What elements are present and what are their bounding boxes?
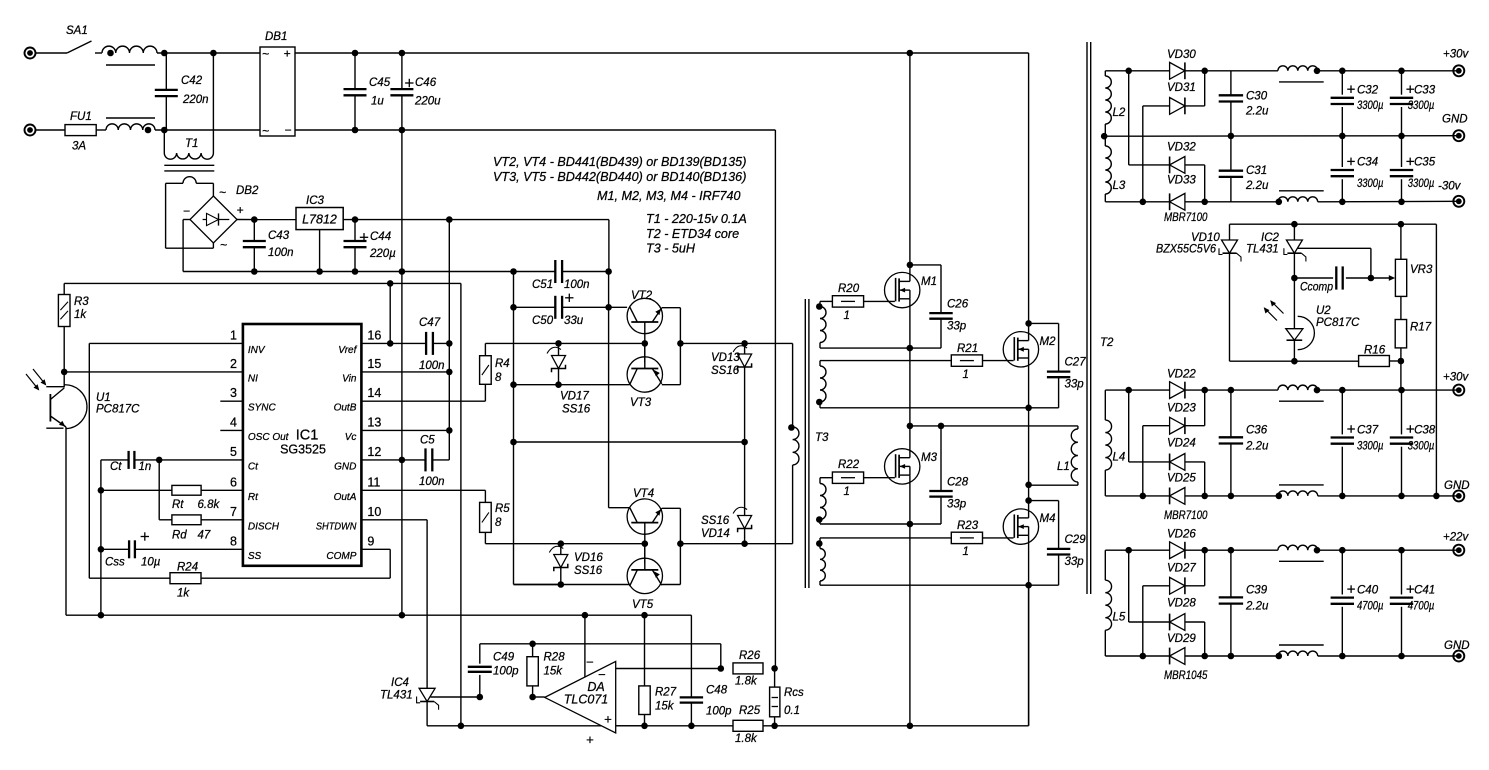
wire GND rail [1318,495,1459,497]
zener VD17 SS16 [558,343,560,384]
diode VD29 [1170,648,1185,665]
capacitor C44 [344,240,367,242]
transformer T3 winding 2 [820,360,951,362]
junction [1201,199,1208,206]
resistor R17 [1400,296,1402,319]
svg-text:9: 9 [367,534,374,548]
regulator IC3 L7812 [296,208,343,230]
wire VT2 emitter [662,307,681,309]
svg-text:C28: C28 [947,477,969,489]
resistor R27 [639,686,650,715]
svg-text:3300µ: 3300µ [1357,441,1384,453]
junction [771,665,778,672]
svg-text:VD30: VD30 [1167,49,1196,61]
wire DC+ rail [295,52,1029,54]
junction [1398,653,1405,660]
wire ground column x402 [401,130,403,272]
svg-text:VD27: VD27 [1167,563,1196,575]
svg-text:C41: C41 [1414,584,1435,596]
resistor R25 [733,720,763,731]
junction [510,268,517,275]
svg-text:+: + [237,203,244,217]
junction emitters [677,340,684,347]
svg-text:5: 5 [230,445,237,459]
svg-text:SS16: SS16 [711,365,740,377]
svg-text:L1: L1 [1057,461,1070,473]
transformer T2 winding L2 [1104,71,1106,76]
junction [98,546,105,553]
junction [907,423,914,430]
junction VT4 base [642,540,649,547]
svg-text:C49: C49 [493,652,515,664]
svg-text:C47: C47 [419,317,441,329]
svg-text:IC4: IC4 [391,677,409,689]
wire [95,52,102,54]
svg-text:+: + [604,712,612,727]
junction [907,345,914,352]
svg-text:C42: C42 [181,75,203,87]
svg-text:C44: C44 [370,231,391,243]
svg-text:220n: 220n [182,94,209,106]
wire [155,129,260,131]
svg-text:GND: GND [334,461,356,472]
junction [399,457,406,464]
svg-text:VT2: VT2 [631,290,653,302]
svg-text:L5: L5 [1113,612,1126,624]
svg-text:GND: GND [1444,640,1470,652]
svg-text:220u: 220u [414,96,441,108]
svg-text:Vc: Vc [345,432,357,443]
ground rail bottom left [66,614,691,616]
transformer T3 winding 3 [820,477,832,479]
svg-text:C31: C31 [1246,165,1267,177]
wire VT2-VT3 base link [644,343,646,362]
resistor R16 [1359,356,1390,367]
svg-text:T2 - ETD34 core: T2 - ETD34 core [646,227,739,241]
junction [1398,133,1405,140]
junction [605,304,612,311]
svg-text:VD32: VD32 [1167,142,1196,154]
junction [1201,387,1208,394]
svg-text:−: − [586,655,594,670]
resistor R24 [170,573,201,584]
transformer T2 winding L5 [1104,550,1106,580]
junction [251,268,258,275]
junction [1398,199,1405,206]
junction [510,439,517,446]
svg-text:TLC071: TLC071 [564,693,608,707]
svg-text:1: 1 [844,486,850,498]
junction [1398,358,1405,365]
wire opamp noninverting input [616,725,645,727]
svg-text:C36: C36 [1246,425,1268,437]
svg-text:GND: GND [1442,114,1468,126]
svg-text:PC817C: PC817C [1316,317,1360,329]
terminal mains N [25,125,36,136]
capacitor C45 [344,88,367,90]
regulator IC4 TL431 [419,688,435,701]
transistor VT4 [627,499,662,534]
wire regulator rail to output GND [1435,224,1437,496]
svg-text:12: 12 [367,445,381,459]
svg-text:VD29: VD29 [1167,633,1196,645]
wire +12V column [448,220,450,431]
terminal mains L [25,48,36,59]
choke output bottom [1278,491,1318,496]
capacitor C46 [390,88,413,90]
terminal -30v [1453,196,1464,207]
wire [36,129,65,131]
optocoupler U2 LED [1286,329,1303,341]
capacitor C42 [155,89,178,91]
capacitor C47 [425,332,427,355]
svg-text:16: 16 [367,328,381,342]
resistor Rd [172,515,201,525]
wire INV feedback column [88,343,90,578]
svg-text:−: − [598,667,606,682]
diode VD22 [1170,382,1185,399]
wire +30v rail [1318,389,1459,391]
wire left bias column [100,460,102,615]
wire [36,52,67,54]
junction [641,723,648,730]
potentiometer VR3 [1400,224,1402,259]
svg-text:T3: T3 [815,432,829,444]
wire winding3 bottom [820,523,941,525]
svg-text:OutB: OutB [334,403,357,414]
polarity dot [1314,387,1321,394]
polarity dot [145,127,152,134]
wire M1 drain [909,53,911,281]
transformer T1 primary [163,130,165,153]
junction [1398,387,1405,394]
junction [1398,547,1405,554]
svg-text:10: 10 [367,505,381,519]
resistor R5 [480,502,492,532]
junction [446,427,453,434]
wire emitter node to T3 primary bottom [680,543,792,545]
diode VD24 [1170,454,1185,471]
junction [1228,387,1235,394]
wire pin14 OutB [361,400,485,402]
wire +12V to VT4 [608,272,610,308]
zener VD16 SS16 [560,544,562,585]
svg-text:M3: M3 [921,452,938,464]
svg-text:PC817C: PC817C [96,404,140,416]
svg-text:VT4: VT4 [633,488,654,500]
wire R4 top to driver base rail [484,343,486,355]
svg-text:R20: R20 [838,283,860,295]
wire R16 node to +30v rail [1400,361,1402,390]
polarity dot [816,399,823,406]
svg-text:3300µ: 3300µ [1408,100,1435,112]
svg-text:R24: R24 [177,562,198,574]
junction [1025,497,1032,504]
junction [1291,275,1298,282]
wire emitter node to T3 primary [680,342,792,344]
LED light arrows [26,374,39,390]
svg-text:3300µ: 3300µ [1408,441,1435,453]
junction [210,50,217,57]
svg-text:15k: 15k [655,701,675,713]
junction [510,304,517,311]
svg-text:8: 8 [495,372,502,384]
svg-text:33p: 33p [1065,556,1085,568]
svg-text:R5: R5 [495,503,510,515]
svg-text:3A: 3A [72,141,86,153]
wire ground column x513 [513,272,515,585]
junction [387,280,394,287]
diode VD25 [1170,488,1185,505]
junction [399,612,406,619]
svg-text:COMP: COMP [326,551,356,562]
svg-text:2.2u: 2.2u [1245,441,1269,453]
switch SA1 [67,41,92,53]
junction [1398,493,1405,500]
svg-text:13: 13 [367,415,381,429]
wire +30v top rail [1105,389,1169,391]
wire regulator top rail [1230,223,1437,225]
polarity dot [816,303,823,310]
resistor R23 [951,532,982,543]
svg-text:4: 4 [230,415,237,429]
choke output top [1278,545,1318,550]
wire GND mid rail [1104,135,1459,138]
wire pin13 Vc [361,429,449,431]
svg-text:C51: C51 [532,279,553,291]
diode VD31 [1170,98,1185,115]
wire [157,52,260,54]
wire -30 rail [1105,201,1169,203]
svg-text:GND: GND [1444,480,1470,492]
junction [741,439,748,446]
junction [1201,653,1208,660]
svg-text:OSC Out: OSC Out [248,432,290,443]
resistor R21 [951,355,982,366]
zener VD10 BZX55C5V6 [1229,224,1231,240]
svg-text:TL431: TL431 [380,690,413,702]
svg-text:SS16: SS16 [562,404,591,416]
svg-text:U1: U1 [96,392,111,404]
capacitor C34 [1341,136,1343,167]
resistor R3 [58,295,70,327]
wire R23 to M4 gate [983,537,1014,539]
svg-text:R28: R28 [544,652,566,664]
diode VD30 [1170,62,1185,79]
wire +22v rail [1318,549,1459,551]
transistor VT5 [627,558,662,593]
diode VD27 [1170,577,1185,594]
junction [446,216,453,223]
wire R5 bottom to driver base rail [484,532,486,543]
svg-text:INV: INV [248,345,266,356]
wire phase A to L1 [910,425,1078,427]
wire pin10 SHTDWN [361,519,427,521]
junction [477,694,484,701]
polarity dot [816,516,823,523]
wire VD10 anode to R16 node [1230,360,1295,362]
fuse FU1 [65,125,96,136]
wire +30v rail [1318,70,1459,72]
svg-text:L7812: L7812 [302,213,337,227]
transistor M3 IRF740 [885,449,920,484]
svg-text:IC2: IC2 [1261,232,1280,244]
svg-text:NI: NI [248,373,258,384]
svg-text:1: 1 [963,546,969,558]
wire pin1 INV [89,342,243,344]
junction [1291,358,1298,365]
junction [907,723,914,730]
svg-text:T2: T2 [1100,337,1114,349]
svg-text:−: − [285,123,292,137]
junction [555,340,562,347]
junction [907,50,914,57]
wire R24 row [89,577,170,579]
svg-text:VD26: VD26 [1167,528,1196,540]
LED light arrows [1265,308,1278,321]
svg-text:C38: C38 [1414,424,1436,436]
svg-text:+: + [284,47,291,61]
svg-text:VD28: VD28 [1167,598,1196,610]
svg-text:6.8k: 6.8k [198,499,221,511]
svg-text:C5: C5 [420,435,435,447]
wire U1 emitter to ground rail [65,427,67,615]
svg-text:VT2, VT4 - BD441(BD439) or BD1: VT2, VT4 - BD441(BD439) or BD139(BD135) [493,155,746,169]
resistor R28 [527,657,538,686]
capacitor C38 [1401,390,1403,434]
junction [1025,482,1032,489]
polarity dot [1314,547,1321,554]
svg-text:SHTDWN: SHTDWN [316,521,357,532]
terminal GND [1453,651,1464,662]
svg-text:T1: T1 [185,138,198,150]
junction [605,268,612,275]
resistor Rt [172,485,201,495]
transistor M4 IRF740 [1003,509,1038,544]
svg-text:8: 8 [495,517,502,529]
svg-text:2.2u: 2.2u [1245,180,1269,192]
junction [251,216,258,223]
wire R17 to R16 node [1400,348,1402,361]
svg-text:100n: 100n [564,279,590,291]
svg-text:~: ~ [262,47,269,61]
wire opamp inverting input [584,615,586,677]
junction [316,268,323,275]
svg-text:1.8k: 1.8k [735,733,758,745]
wire M2 drain [1028,323,1030,340]
svg-text:SYNC: SYNC [248,403,277,414]
junction [718,665,725,672]
svg-text:4700µ: 4700µ [1357,601,1384,613]
svg-text:Ct: Ct [248,461,259,472]
wire VT5 collector rail [514,584,630,586]
terminal +22v [1453,545,1464,556]
junction [1339,133,1346,140]
junction [1339,547,1346,554]
wire winding2 bottom / M2 source rail [820,407,1029,409]
svg-text:R25: R25 [739,705,761,717]
svg-text:C29: C29 [1065,534,1087,546]
svg-text:100p: 100p [493,666,519,678]
svg-text:VD17: VD17 [560,391,589,403]
svg-text:220µ: 220µ [369,248,396,260]
junction [555,381,562,388]
wire winding4 bottom / M4 source rail [820,584,1029,586]
optocoupler U1 phototransistor [63,372,65,388]
junction [458,723,465,730]
choke output top [1278,385,1318,390]
wire Vref up [389,283,391,343]
wire pin11 OutA [361,489,485,491]
svg-text:VD23: VD23 [1167,402,1196,414]
svg-text:R3: R3 [74,296,89,308]
svg-text:C34: C34 [1357,157,1378,169]
wire pin2 NI [64,371,243,373]
capacitor C26 [910,264,941,266]
wire R20 to M1 gate [864,300,895,302]
wire VT3 collector rail [514,384,630,386]
transistor M1 IRF740 [885,272,920,307]
diode VD23 [1170,417,1185,434]
wire Vref to NI rail [64,282,461,284]
svg-text:T1 - 220-15v 0.1A: T1 - 220-15v 0.1A [646,212,747,226]
svg-text:~: ~ [219,186,226,200]
svg-text:~: ~ [262,124,269,138]
transformer T3 winding 4 [820,537,951,539]
wire winding1 bottom [820,347,941,349]
svg-text:10µ: 10µ [141,557,161,569]
svg-text:BZX55C5V6: BZX55C5V6 [1156,244,1217,256]
svg-text:2: 2 [230,357,237,371]
svg-text:1u: 1u [371,96,384,108]
svg-text:SG3525: SG3525 [280,443,326,457]
inductor L1 T2 primary [1077,426,1079,429]
svg-text:2.2u: 2.2u [1245,601,1269,613]
junction [399,50,406,57]
svg-text:IC3: IC3 [306,195,325,207]
svg-text:33p: 33p [947,499,967,511]
junction [156,457,163,464]
junction [1125,387,1132,394]
wire DC- down to current sense [774,130,776,668]
junction [1201,68,1208,75]
capacitor C33 [1401,71,1403,95]
svg-text:C30: C30 [1246,91,1268,103]
svg-text:R4: R4 [495,358,510,370]
svg-text:Vin: Vin [342,373,357,384]
svg-text:SA1: SA1 [66,25,88,37]
junction [352,268,359,275]
wire phase B [1028,408,1030,501]
junction [446,369,453,376]
junction [1025,405,1032,412]
capacitor C32 [1341,71,1343,95]
capacitor C51 [554,260,556,283]
svg-text:C32: C32 [1357,85,1379,97]
wire R22 to M3 gate [864,477,895,479]
wire R21 to M2 gate [983,360,1014,362]
svg-text:Css: Css [105,557,125,569]
junction [529,641,536,648]
polarity dot center tap [1101,133,1108,140]
bridge rectifier DB1 [260,47,295,136]
svg-text:100n: 100n [419,360,445,372]
svg-text:MBR1045: MBR1045 [1164,670,1208,682]
junction emitters [677,540,684,547]
junction [399,127,406,134]
svg-text:VD13: VD13 [711,352,740,364]
wire +12V rail to C51 [608,220,610,272]
